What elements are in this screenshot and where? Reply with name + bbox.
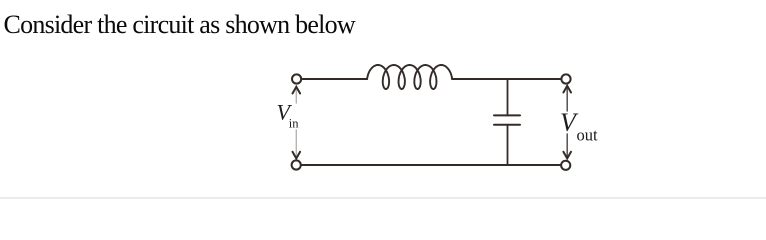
Vout arrow shaft — [566, 87, 568, 158]
Vin arrow shaft — [295, 88, 297, 156]
wire bottom segment — [301, 164, 561, 166]
capacitor C bottom plate — [494, 124, 520, 126]
wire top-right segment — [452, 78, 561, 80]
Vin arrowhead down — [293, 152, 301, 159]
capacitor C top plate — [494, 114, 520, 116]
title text — [4, 10, 355, 40]
terminal node bottom-right — [561, 161, 570, 170]
terminal node bottom-left — [292, 160, 301, 169]
inductor L — [367, 65, 452, 89]
svg-text:out: out — [577, 126, 599, 145]
Vout arrowhead down — [563, 152, 571, 159]
bottom separator line — [0, 197, 766, 199]
svg-text:in: in — [289, 117, 299, 131]
wire capacitor top lead — [507, 79, 509, 115]
terminal node top-left — [292, 74, 301, 83]
wire capacitor bottom lead — [507, 125, 509, 165]
terminal node top-right — [561, 74, 570, 83]
Vout arrowhead up — [563, 86, 571, 93]
Vin arrowhead up — [293, 87, 301, 94]
wire top-left segment — [302, 78, 368, 80]
